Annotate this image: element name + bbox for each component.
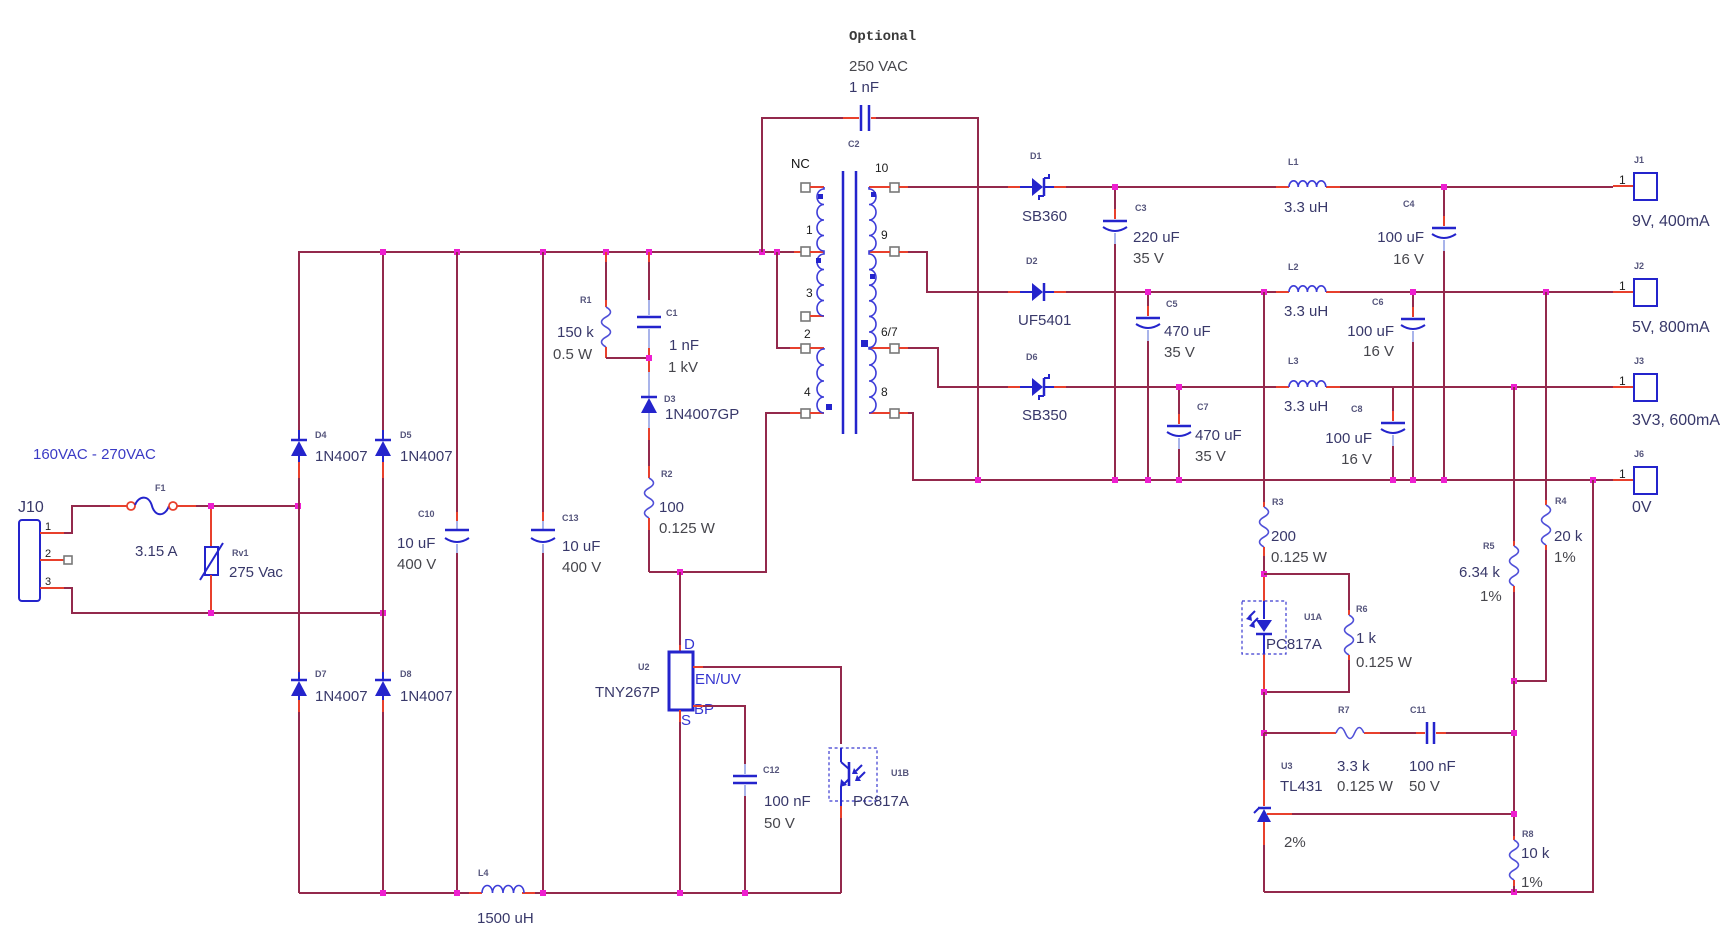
op-amp U2 TNY267P body: [595, 636, 741, 729]
transformer terminal 6/7: [890, 344, 899, 353]
svg-text:1 k: 1 k: [1356, 630, 1377, 647]
svg-text:3: 3: [45, 576, 51, 588]
svg-text:Optional: Optional: [849, 29, 916, 45]
node junction 3V3/R5: [1511, 384, 1517, 390]
transformer terminal 1: [801, 247, 810, 256]
wire TL431 cathode drop: [1263, 733, 1265, 806]
wire U2 source to ground rail: [679, 710, 681, 893]
svg-text:J2: J2: [1634, 261, 1644, 271]
polarity dot winding 1-3: [816, 258, 821, 263]
wire transformer pin1 stub: [794, 251, 801, 253]
node junction 5V/C5: [1145, 289, 1151, 295]
wire stub pin1: [810, 251, 824, 253]
wire DC+ rail: [298, 251, 794, 253]
svg-text:250 VAC: 250 VAC: [849, 58, 908, 75]
node junction FB/R7C11: [1511, 730, 1517, 736]
diode D6 SB350: [1020, 352, 1067, 424]
wire drain node to transformer pin 4: [649, 413, 790, 572]
capacitor C1 1nF 1kV: [637, 252, 699, 376]
bias winding 1-3: [817, 252, 824, 316]
svg-text:Rv1: Rv1: [232, 548, 249, 558]
svg-text:TNY267P: TNY267P: [595, 684, 660, 701]
svg-text:C12: C12: [763, 765, 780, 775]
svg-text:35 V: 35 V: [1133, 250, 1164, 267]
wire neutral from J10 pin3: [64, 588, 383, 613]
svg-text:R3: R3: [1272, 497, 1284, 507]
svg-text:R7: R7: [1338, 705, 1350, 715]
connector J3 3V3: [1619, 356, 1720, 429]
optocoupler U1B PC817A transistor: [829, 748, 910, 810]
inductor L1 3.3uH: [1284, 157, 1328, 216]
wire transformer pin4 stub: [790, 412, 801, 414]
inductor L4 1500uH: [477, 868, 534, 927]
capacitor C13 10uF 400V: [531, 252, 601, 893]
svg-text:400 V: 400 V: [397, 556, 436, 573]
svg-text:C8: C8: [1351, 404, 1363, 414]
svg-text:3.3 k: 3.3 k: [1337, 758, 1370, 775]
svg-text:10 uF: 10 uF: [562, 538, 600, 555]
svg-text:PC817A: PC817A: [853, 793, 909, 810]
wire transformer pin2 branch: [777, 252, 801, 348]
svg-text:D6: D6: [1026, 352, 1038, 362]
svg-text:J6: J6: [1634, 449, 1644, 459]
node junction R7 row left: [1261, 730, 1267, 736]
resistor R8 10k 1%: [1510, 829, 1550, 892]
svg-text:U3: U3: [1281, 761, 1293, 771]
svg-text:275 Vac: 275 Vac: [229, 564, 283, 581]
node junction 3V3/C7: [1176, 384, 1182, 390]
svg-text:100 nF: 100 nF: [764, 793, 811, 810]
resistor R5 6.34k 1%: [1459, 387, 1519, 681]
diode D4 1N4007: [291, 430, 368, 465]
transformer terminal 2: [801, 344, 810, 353]
wire 3V3 row from pin 6/7: [899, 348, 1634, 387]
wire LED bottom to R7 node: [1263, 692, 1265, 733]
svg-text:1 nF: 1 nF: [849, 79, 879, 96]
capacitor C6 100uF 16V: [1347, 292, 1425, 480]
capacitor C10 10uF 400V: [397, 252, 469, 893]
svg-text:16 V: 16 V: [1363, 343, 1394, 360]
wire stub pin2: [810, 347, 824, 349]
wire fuse right lead: [177, 505, 196, 507]
node junction rail/C2 branch: [759, 249, 765, 255]
svg-text:C5: C5: [1166, 299, 1178, 309]
svg-text:9: 9: [881, 228, 888, 242]
transformer core: [843, 171, 856, 434]
svg-text:D3: D3: [664, 394, 676, 404]
svg-text:1%: 1%: [1480, 588, 1502, 605]
svg-text:J3: J3: [1634, 356, 1644, 366]
svg-text:3.3 uH: 3.3 uH: [1284, 398, 1328, 415]
svg-text:C1: C1: [666, 308, 678, 318]
capacitor C4 100uF 16V: [1377, 187, 1456, 480]
node junction 5V/C6: [1410, 289, 1416, 295]
node junction drain: [677, 569, 683, 575]
inductor L3 3.3uH: [1284, 356, 1328, 415]
svg-text:470 uF: 470 uF: [1195, 427, 1242, 444]
svg-text:2: 2: [804, 327, 811, 341]
wire stub pin8: [869, 412, 890, 414]
optocoupler U1A PC817A LED: [1242, 577, 1323, 689]
svg-text:9V, 400mA: 9V, 400mA: [1632, 213, 1710, 230]
wire 5V row from pin9: [899, 252, 1634, 292]
svg-text:200: 200: [1271, 528, 1296, 545]
svg-text:1: 1: [1619, 374, 1626, 388]
node junction R3/LED/R6: [1261, 571, 1267, 577]
node junction FB/TL431 ref: [1511, 811, 1517, 817]
wire U1B emitter to ground rail: [840, 806, 842, 893]
svg-text:1: 1: [45, 521, 51, 533]
svg-text:0.5 W: 0.5 W: [553, 346, 593, 363]
svg-text:1N4007: 1N4007: [315, 448, 368, 465]
node junction 9V/C3: [1112, 184, 1118, 190]
svg-text:J10: J10: [18, 499, 44, 516]
svg-text:220 uF: 220 uF: [1133, 229, 1180, 246]
svg-text:SB350: SB350: [1022, 407, 1067, 424]
svg-text:3V3, 600mA: 3V3, 600mA: [1632, 412, 1720, 429]
node junction ground/D8: [380, 890, 386, 896]
node junction 0V/feedback return: [1590, 477, 1596, 483]
node junction fuse/RV1: [208, 503, 214, 509]
resistor R2 100 0.125W: [645, 440, 716, 572]
capacitor C8 100uF 16V: [1325, 387, 1405, 480]
wire D4 leg vertical: [298, 252, 300, 893]
svg-text:470 uF: 470 uF: [1164, 323, 1211, 340]
wire stub pin10: [869, 186, 890, 188]
svg-text:D5: D5: [400, 430, 412, 440]
wire 9V row from pin10: [899, 186, 1634, 187]
node junction 0V/C6: [1410, 477, 1416, 483]
fuse F1: [127, 483, 178, 560]
svg-text:EN/UV: EN/UV: [695, 671, 741, 688]
node junction R1/C1/D3: [646, 355, 652, 361]
secondary winding 10-9: [869, 187, 876, 252]
svg-text:10: 10: [875, 161, 889, 175]
svg-text:1: 1: [806, 223, 813, 237]
node junction LED/R6 bottom: [1261, 689, 1267, 695]
svg-text:1%: 1%: [1554, 549, 1576, 566]
node junction ground/C13: [540, 890, 546, 896]
svg-text:3: 3: [806, 286, 813, 300]
svg-text:NC: NC: [791, 156, 810, 171]
svg-text:R5: R5: [1483, 541, 1495, 551]
svg-text:D2: D2: [1026, 256, 1038, 266]
svg-text:U2: U2: [638, 662, 650, 672]
svg-text:16 V: 16 V: [1393, 251, 1424, 268]
polarity dot winding 9-6/7: [870, 274, 875, 279]
J10 pin 3 stub: [40, 587, 64, 589]
capacitor C12 100nF 50V: [733, 764, 811, 893]
diode D3 1N4007GP: [641, 361, 739, 440]
wire primary ground rail: [299, 892, 841, 894]
wire line from fuse to bridge: [196, 505, 298, 507]
wire stub pin3: [810, 315, 824, 317]
svg-text:L4: L4: [478, 868, 489, 878]
transformer terminal 10: [890, 183, 899, 192]
svg-text:U1B: U1B: [891, 768, 910, 778]
wire feedback bottom rail: [1264, 480, 1593, 892]
svg-text:1%: 1%: [1521, 874, 1543, 891]
diode D8 1N4007: [375, 669, 453, 705]
wire stub NC: [810, 186, 824, 188]
svg-text:4: 4: [804, 385, 811, 399]
svg-text:6/7: 6/7: [881, 325, 898, 339]
svg-text:S: S: [681, 712, 691, 729]
transformer terminal 8: [890, 409, 899, 418]
svg-text:2%: 2%: [1284, 834, 1306, 851]
polarity dot winding 2-4: [826, 404, 832, 410]
node junction fuse line at bridge: [295, 503, 301, 509]
svg-text:R2: R2: [661, 469, 673, 479]
wire fuse left lead: [110, 505, 127, 507]
wire BP to C12: [693, 706, 745, 764]
svg-text:100 uF: 100 uF: [1325, 430, 1372, 447]
svg-text:35 V: 35 V: [1164, 344, 1195, 361]
node junction ground/C12: [742, 890, 748, 896]
connector J10: [18, 499, 51, 601]
capacitor C11 100nF 50V: [1409, 705, 1456, 795]
diode D5 1N4007: [375, 430, 453, 465]
node junction rail/D5: [380, 249, 386, 255]
diode D2 UF5401: [1018, 256, 1071, 329]
svg-text:3.3 uH: 3.3 uH: [1284, 303, 1328, 320]
resistor R1 150k 0.5W: [553, 252, 611, 363]
transformer terminal 9: [890, 247, 899, 256]
svg-text:D7: D7: [315, 669, 327, 679]
node junction 5V/R3: [1261, 289, 1267, 295]
svg-text:UF5401: UF5401: [1018, 312, 1071, 329]
svg-text:2: 2: [45, 548, 51, 560]
svg-text:D4: D4: [315, 430, 327, 440]
svg-text:1N4007GP: 1N4007GP: [665, 406, 739, 423]
node junction 0V/C3: [1112, 477, 1118, 483]
node junction rail/C13: [540, 249, 546, 255]
svg-text:C13: C13: [562, 513, 579, 523]
node junction rail/pin2 branch: [774, 249, 780, 255]
wire FB divider vertical: [1513, 681, 1515, 836]
svg-text:1 nF: 1 nF: [669, 337, 699, 354]
wire TL431 anode to bottom rail: [1263, 822, 1265, 892]
wire R1 bottom to C1 node: [606, 357, 649, 359]
svg-text:10 k: 10 k: [1521, 845, 1550, 862]
svg-text:150 k: 150 k: [557, 324, 594, 341]
svg-text:5V, 800mA: 5V, 800mA: [1632, 319, 1710, 336]
node junction 0V/C8: [1390, 477, 1396, 483]
svg-text:J1: J1: [1634, 155, 1644, 165]
diode D7 1N4007: [291, 669, 368, 705]
transformer terminal 3: [801, 312, 810, 321]
polarity dot winding 6/7-8: [861, 340, 868, 347]
resistor R3 200 0.125W: [1260, 292, 1328, 574]
svg-text:0V: 0V: [1632, 499, 1652, 516]
svg-text:100 uF: 100 uF: [1377, 229, 1424, 246]
wire 0V row from pin8: [899, 413, 1634, 480]
svg-text:10 uF: 10 uF: [397, 535, 435, 552]
svg-text:L2: L2: [1288, 262, 1299, 272]
wire TL431 ref: [1267, 813, 1514, 815]
svg-text:1: 1: [1619, 173, 1626, 187]
svg-text:C7: C7: [1197, 402, 1209, 412]
svg-text:0.125 W: 0.125 W: [659, 520, 716, 537]
node junction rail/C1: [646, 249, 652, 255]
polarity dot winding 10-9: [871, 192, 876, 197]
svg-text:C4: C4: [1403, 199, 1415, 209]
svg-text:R1: R1: [580, 295, 592, 305]
svg-text:8: 8: [881, 385, 888, 399]
svg-text:U1A: U1A: [1304, 612, 1323, 622]
svg-text:R6: R6: [1356, 604, 1368, 614]
svg-text:3.15 A: 3.15 A: [135, 543, 178, 560]
polarity dot NC winding: [818, 194, 823, 199]
capacitor C7 470uF 35V: [1167, 387, 1242, 480]
primary winding 2-4: [817, 348, 824, 413]
wire D5 leg vertical: [382, 252, 384, 893]
svg-text:35 V: 35 V: [1195, 448, 1226, 465]
wire C2 branch left vertical: [762, 118, 846, 252]
svg-text:3.3 uH: 3.3 uH: [1284, 199, 1328, 216]
inductor L2 3.3uH: [1284, 262, 1328, 320]
svg-text:0.125 W: 0.125 W: [1356, 654, 1413, 671]
svg-text:D: D: [684, 636, 695, 653]
svg-text:0.125 W: 0.125 W: [1271, 549, 1328, 566]
node junction bottom rail/R8: [1511, 889, 1517, 895]
node junction neutral at bridge: [380, 610, 386, 616]
svg-text:D8: D8: [400, 669, 412, 679]
svg-text:C2: C2: [848, 139, 860, 149]
diode D1 SB360: [1020, 151, 1067, 225]
node junction ground/U2 source: [677, 890, 683, 896]
node junction neutral/RV1: [208, 610, 214, 616]
svg-text:PC817A: PC817A: [1266, 636, 1322, 653]
connector J6 0V: [1619, 449, 1657, 516]
svg-text:BP: BP: [694, 701, 714, 718]
svg-text:6.34 k: 6.34 k: [1459, 564, 1500, 581]
J10 pin 2 stub with no-connect square: [40, 556, 72, 564]
svg-text:50 V: 50 V: [1409, 778, 1440, 795]
svg-text:1N4007: 1N4007: [315, 688, 368, 705]
svg-text:1 kV: 1 kV: [668, 359, 698, 376]
wire R7/C11 row: [1264, 732, 1514, 734]
secondary winding 9-6/7: [869, 252, 876, 348]
svg-text:F1: F1: [155, 483, 166, 493]
wire stub pin6/7: [869, 347, 890, 349]
svg-text:1: 1: [1619, 279, 1626, 293]
svg-text:100 uF: 100 uF: [1347, 323, 1394, 340]
transformer terminal 4: [801, 409, 810, 418]
capacitor C3 220uF 35V: [1103, 187, 1180, 480]
svg-text:D1: D1: [1030, 151, 1042, 161]
svg-text:100 nF: 100 nF: [1409, 758, 1456, 775]
node junction rail/C10: [454, 249, 460, 255]
node junction 0V/C4: [1441, 477, 1447, 483]
resistor R6 1k 0.125W: [1345, 604, 1413, 671]
wire drain drop to U2: [679, 572, 681, 653]
capacitor C2 1nF 250VAC optional: [843, 29, 916, 149]
svg-text:C10: C10: [418, 509, 435, 519]
svg-text:R8: R8: [1522, 829, 1534, 839]
svg-text:1N4007: 1N4007: [400, 448, 453, 465]
wire EN/UV to optocoupler: [693, 667, 841, 744]
wire C2 right vertical to secondary ground: [876, 118, 978, 480]
svg-text:1N4007: 1N4007: [400, 688, 453, 705]
connector J2 5V: [1619, 261, 1710, 336]
svg-text:C11: C11: [1410, 705, 1426, 715]
svg-text:C3: C3: [1135, 203, 1147, 213]
node junction ground/C10: [454, 890, 460, 896]
primary winding NC-1: [817, 187, 824, 252]
node junction 0V/C2: [975, 477, 981, 483]
svg-text:TL431: TL431: [1280, 778, 1323, 795]
node junction 0V/C7: [1176, 477, 1182, 483]
node junction 0V/C5: [1145, 477, 1151, 483]
svg-text:C6: C6: [1372, 297, 1384, 307]
svg-text:L3: L3: [1288, 356, 1299, 366]
svg-text:1500 uH: 1500 uH: [477, 910, 534, 927]
svg-text:0.125 W: 0.125 W: [1337, 778, 1394, 795]
svg-text:16 V: 16 V: [1341, 451, 1372, 468]
svg-text:100: 100: [659, 499, 684, 516]
svg-text:400 V: 400 V: [562, 559, 601, 576]
svg-text:R4: R4: [1555, 496, 1567, 506]
wire line from J10 pin1 to fuse: [64, 506, 110, 533]
shunt regulator U3 TL431: [1254, 761, 1323, 851]
transformer terminal NC: [801, 183, 810, 192]
svg-text:160VAC - 270VAC: 160VAC - 270VAC: [33, 446, 156, 463]
svg-text:SB360: SB360: [1022, 208, 1067, 225]
secondary winding 6/7-8: [869, 348, 876, 413]
node junction 5V/R4: [1543, 289, 1549, 295]
svg-text:50 V: 50 V: [764, 815, 795, 832]
resistor R7 3.3k 0.125W: [1336, 705, 1394, 795]
J10 pin 1 stub: [40, 532, 64, 534]
svg-text:1: 1: [1619, 467, 1626, 481]
wire stub pin9: [869, 251, 890, 253]
svg-text:20 k: 20 k: [1554, 528, 1583, 545]
node junction R4/R5: [1511, 678, 1517, 684]
connector J1 9V: [1619, 155, 1710, 230]
resistor R4 20k 1%: [1514, 292, 1583, 681]
capacitor C5 470uF 35V: [1136, 292, 1211, 480]
node junction 9V/C4: [1441, 184, 1447, 190]
svg-text:L1: L1: [1288, 157, 1299, 167]
wire opto LED / R6 loop: [1264, 574, 1349, 692]
wire stub pin4: [810, 412, 824, 414]
node junction rail/R1: [603, 249, 609, 255]
varistor RV1: [200, 506, 283, 613]
